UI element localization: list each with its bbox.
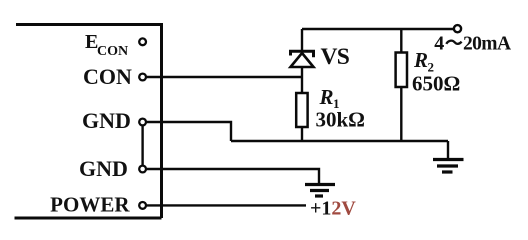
wire R2 bottom lead — [400, 87, 402, 141]
pin CON terminal — [139, 74, 146, 81]
pin POWER terminal — [139, 202, 146, 209]
svg-text:R: R — [413, 48, 428, 72]
wire top rail from zener to output terminal — [302, 28, 454, 30]
pin GND1 terminal — [139, 119, 146, 126]
svg-text:+12V: +12V — [310, 198, 356, 220]
zener diode VS — [291, 29, 314, 93]
svg-text:4: 4 — [434, 32, 444, 54]
wire down to right ground — [447, 141, 449, 159]
module box outline — [15, 25, 162, 219]
pin E_CON terminal — [139, 38, 146, 45]
svg-text:20mA: 20mA — [463, 33, 511, 54]
svg-text:GND: GND — [79, 156, 128, 181]
resistor R2 — [396, 53, 407, 88]
svg-text:CON: CON — [97, 44, 128, 59]
pin GND2 terminal — [139, 166, 146, 173]
resistor R1 — [296, 93, 307, 127]
svg-text:GND: GND — [82, 108, 131, 133]
output terminal 4-20mA — [454, 25, 461, 32]
wire GND1 to ground rail — [146, 122, 231, 141]
svg-text:POWER: POWER — [50, 193, 130, 217]
wire joining GND1 and GND2 pins — [141, 125, 143, 165]
wire R2 top lead — [400, 29, 402, 53]
svg-text:R: R — [319, 85, 334, 109]
svg-text:650Ω: 650Ω — [412, 72, 460, 96]
pin label E_CON — [85, 31, 128, 59]
wire POWER to +12V — [146, 204, 306, 206]
svg-text:VS: VS — [321, 44, 350, 70]
wire ground rail — [231, 140, 448, 142]
ground (middle, for GND2) — [305, 185, 335, 197]
ground (right, for R1/R2 rail) — [433, 160, 464, 173]
svg-text:CON: CON — [83, 64, 132, 89]
wire CON to zener/R1 node — [146, 76, 302, 78]
wire R1 bottom lead — [301, 127, 303, 141]
wire GND2 to middle ground — [146, 169, 319, 183]
svg-text:30kΩ: 30kΩ — [316, 108, 366, 132]
